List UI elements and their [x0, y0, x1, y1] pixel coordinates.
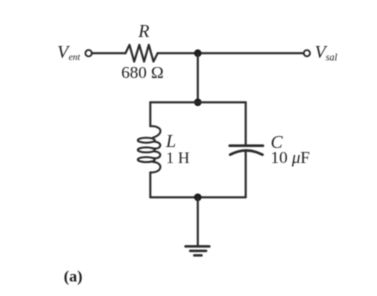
node junction top [194, 49, 202, 57]
label 10 uF [271, 148, 310, 167]
wire top to output [158, 52, 304, 54]
svg-text:R: R [137, 21, 149, 41]
label L [165, 131, 176, 151]
wire tank top rail [150, 101, 245, 103]
label Vsal [315, 42, 338, 63]
wire tank bottom rail [150, 196, 245, 198]
wire right branch lower [245, 151, 247, 197]
wire right branch upper [245, 102, 247, 144]
svg-text:ent: ent [69, 53, 81, 63]
svg-text:1 H: 1 H [166, 150, 190, 167]
svg-text:L: L [165, 131, 176, 151]
label Vent [57, 42, 80, 63]
svg-text:sal: sal [326, 52, 338, 63]
label 1 H [166, 150, 190, 167]
svg-text:(a): (a) [64, 269, 83, 286]
wire input lead [92, 52, 126, 54]
label (a) [64, 269, 83, 286]
svg-text:10 μF: 10 μF [271, 148, 310, 167]
label 680 ohm [121, 63, 163, 82]
wire left branch upper [149, 102, 151, 126]
terminal Vsal [304, 50, 310, 56]
resistor R [126, 45, 158, 62]
inductor L coil [138, 126, 161, 172]
wire junction down [197, 53, 199, 102]
ground [186, 246, 210, 255]
label C [271, 132, 284, 152]
terminal Vent [85, 50, 91, 56]
node junction tank top [194, 99, 202, 107]
capacitor C bottom plate [230, 150, 262, 154]
wire to ground [197, 197, 199, 246]
wire left branch lower [149, 172, 151, 197]
capacitor C top plate [230, 144, 263, 147]
node junction tank bottom [194, 194, 202, 202]
label R [137, 21, 149, 41]
svg-text:680 Ω: 680 Ω [121, 63, 163, 82]
